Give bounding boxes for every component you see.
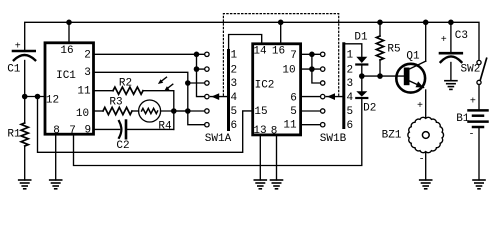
- SW1B contact circles: [321, 52, 325, 127]
- svg-text:5: 5: [230, 106, 237, 118]
- wire IC2 pin16 riser: [280, 22, 282, 44]
- svg-text:-: -: [468, 129, 474, 140]
- svg-text:8: 8: [53, 125, 60, 137]
- ground (B1): [473, 180, 485, 189]
- ground (IC1 pin8): [50, 180, 62, 189]
- svg-text:11: 11: [283, 120, 297, 132]
- svg-text:BZ1: BZ1: [382, 130, 402, 142]
- svg-text:R3: R3: [109, 97, 122, 109]
- svg-text:6: 6: [230, 120, 237, 132]
- svg-text:R1: R1: [7, 129, 21, 141]
- svg-text:D2: D2: [363, 103, 376, 115]
- wire D junction to Q1 base: [362, 75, 404, 77]
- svg-text:6: 6: [346, 120, 353, 132]
- IC1 pin labels: [46, 45, 91, 137]
- SW1B position numbers: [346, 50, 353, 132]
- wire SW1A vertical B rows3-5-6: [188, 83, 205, 125]
- wire IC1 pin2: [94, 53, 204, 55]
- svg-text:SW2: SW2: [461, 64, 481, 76]
- wire IC2 pin8 to ground: [276, 135, 278, 180]
- diode D2: [356, 76, 376, 114]
- SW1B bar: [342, 44, 345, 128]
- svg-text:IC1: IC1: [56, 70, 76, 82]
- svg-text:12: 12: [46, 95, 59, 107]
- svg-text:8: 8: [271, 125, 278, 137]
- svg-text:10: 10: [282, 65, 295, 77]
- wire IC2 pin14 jog to SW1A bar: [229, 35, 262, 51]
- svg-text:+: +: [15, 42, 21, 53]
- svg-text:+: +: [441, 35, 447, 46]
- SW1B wiper arrow: [326, 93, 342, 100]
- svg-text:7: 7: [290, 50, 297, 62]
- svg-text:4: 4: [230, 92, 237, 104]
- svg-text:14: 14: [253, 46, 267, 58]
- transistor Q1: [396, 51, 425, 93]
- ground (IC2 pin13): [254, 180, 266, 189]
- svg-text:+: +: [470, 97, 476, 108]
- wire top supply rail: [25, 22, 479, 60]
- wire SW1B bar top to D1: [344, 44, 362, 57]
- svg-text:2: 2: [346, 64, 353, 76]
- svg-text:5: 5: [290, 106, 297, 118]
- svg-text:13: 13: [253, 125, 266, 137]
- svg-text:+: +: [417, 101, 423, 112]
- wire IC2 pin13 to ground: [259, 135, 261, 180]
- IC2 box: [253, 44, 301, 135]
- resistor R1: [7, 97, 28, 181]
- wire IC1 pin7 to bus B: [74, 99, 362, 166]
- wire IC2 pin10: [302, 68, 321, 70]
- wire IC1 pin12: [25, 96, 45, 98]
- wire IC1 pin3 with jog to row3: [94, 72, 204, 83]
- svg-text:IC2: IC2: [255, 80, 275, 92]
- ground (IC2 pin8): [271, 180, 283, 189]
- svg-text:7: 7: [69, 125, 76, 137]
- svg-text:C3: C3: [455, 30, 468, 42]
- wire IC2 pin5: [302, 110, 321, 112]
- svg-text:D1: D1: [354, 32, 368, 44]
- ground (BZ1): [420, 180, 432, 189]
- svg-text:15: 15: [254, 106, 267, 118]
- wire pin12 net to bus A: [38, 97, 252, 153]
- wire SW1A vertical A rows1-2-4: [197, 54, 205, 96]
- SW1A position numbers: [230, 50, 237, 132]
- diode D1: [354, 32, 368, 77]
- svg-text:16: 16: [272, 46, 285, 58]
- svg-text:C2: C2: [116, 140, 129, 152]
- resistor R3: [94, 97, 138, 115]
- svg-text:R5: R5: [387, 43, 400, 55]
- svg-text:4: 4: [346, 92, 353, 104]
- svg-text:R4: R4: [158, 120, 172, 132]
- capacitor C3: [440, 22, 468, 80]
- capacitor C2: [94, 121, 174, 152]
- photoresistor R4: [139, 100, 188, 132]
- svg-text:5: 5: [346, 106, 353, 118]
- buzzer BZ1: [382, 101, 444, 180]
- wire SW1B rows1-3 vertical: [312, 54, 320, 83]
- wire IC2 pin11: [302, 124, 321, 126]
- SW1A bar: [227, 51, 230, 130]
- wire R-block to row5: [174, 110, 205, 112]
- svg-text:10: 10: [76, 108, 89, 120]
- svg-text:1: 1: [230, 50, 237, 62]
- SW1A contact circles: [205, 52, 209, 127]
- svg-text:2: 2: [84, 49, 91, 61]
- svg-text:11: 11: [77, 86, 91, 98]
- SW1A wiper arrow: [211, 93, 228, 100]
- svg-text:Q1: Q1: [406, 51, 420, 63]
- svg-text:3: 3: [230, 78, 237, 90]
- svg-text:1: 1: [346, 50, 353, 62]
- light arrows into R4: [158, 77, 173, 91]
- wire Q1 emitter to buzzer: [425, 90, 427, 118]
- dotted gang linkage box: [223, 14, 338, 96]
- wire IC2 pin6: [302, 96, 321, 98]
- svg-text:SW1B: SW1B: [320, 133, 347, 145]
- svg-text:16: 16: [60, 45, 73, 57]
- resistor R2: [94, 78, 174, 130]
- switch SW2: [461, 58, 487, 84]
- svg-text:3: 3: [346, 78, 353, 90]
- ground (left, R1): [19, 180, 31, 189]
- wire IC2 pin7: [302, 53, 321, 55]
- svg-text:2: 2: [230, 64, 237, 76]
- wire IC1 pin16 riser: [68, 22, 70, 43]
- capacitor C1: [7, 42, 35, 97]
- resistor R5: [376, 22, 400, 76]
- svg-text:-: -: [419, 155, 425, 166]
- svg-text:6: 6: [290, 93, 297, 105]
- battery B1: [456, 85, 487, 181]
- wire IC1 pin8 to ground: [55, 135, 57, 181]
- svg-text:SW1A: SW1A: [205, 133, 232, 145]
- svg-text:R2: R2: [119, 78, 132, 90]
- svg-text:B1: B1: [456, 113, 470, 125]
- IC2 pin labels: [253, 46, 297, 138]
- svg-text:C1: C1: [7, 64, 21, 76]
- svg-text:3: 3: [84, 67, 91, 79]
- svg-text:9: 9: [84, 124, 91, 136]
- wire stubs to circles: [197, 68, 205, 70]
- ground (C3): [445, 81, 457, 90]
- IC1 box: [45, 43, 94, 134]
- wire Q1 collector riser: [425, 22, 427, 61]
